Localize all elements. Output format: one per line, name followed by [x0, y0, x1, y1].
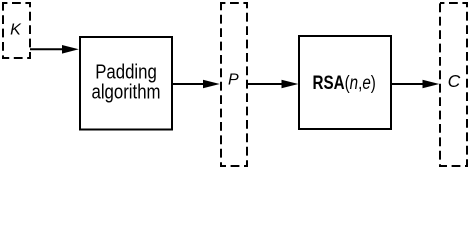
label C — [448, 71, 461, 91]
wire: K to Padding algorithm (arrow) — [30, 45, 79, 54]
label Padding algorithm — [91, 60, 160, 103]
data node C (dashed box) — [440, 3, 467, 166]
svg-text:algorithm: algorithm — [91, 80, 160, 103]
block: Padding algorithm — [80, 37, 172, 130]
wire: RSA to C (arrow) — [391, 80, 439, 89]
label RSA(n,e) — [313, 71, 376, 93]
svg-text:K: K — [10, 21, 22, 38]
data node P (dashed box) — [221, 3, 247, 166]
label P — [228, 72, 239, 89]
data node K (dashed box) — [3, 3, 30, 58]
svg-text:P: P — [228, 72, 239, 89]
wire: P to RSA (arrow) — [248, 80, 298, 89]
wire: Padding algorithm to P (arrow) — [172, 80, 220, 89]
block: RSA(n,e) — [299, 36, 391, 129]
svg-text:C: C — [448, 71, 461, 91]
label K — [10, 21, 22, 38]
svg-text:RSA(n,e): RSA(n,e) — [313, 71, 376, 93]
